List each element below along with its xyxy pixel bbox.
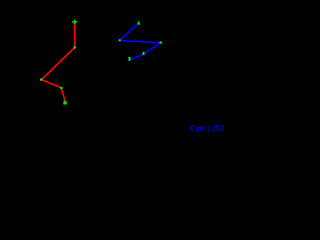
node R1 start marker (green cross) [72, 20, 77, 24]
node R5 end marker (green square) [63, 101, 66, 104]
svg-text:X µm / 20X: X µm / 20X [189, 123, 225, 133]
wire blue segment 2 [120, 41, 161, 43]
wire blue segment 4 [130, 55, 143, 60]
node R2 [73, 46, 76, 49]
wire blue segment 3 [144, 43, 161, 54]
node B5 end marker [128, 57, 130, 61]
node B4 [143, 52, 145, 55]
node R4 [60, 87, 63, 90]
wire red segment 2 [42, 48, 75, 80]
node B3 [159, 41, 162, 44]
wire red segment 4 [61, 88, 65, 101]
wire red segment 3 [42, 80, 62, 88]
wire red segment 1 [74, 22, 76, 48]
wire blue segment 1 [120, 23, 139, 40]
node B2 [119, 39, 121, 41]
node B1 [138, 22, 140, 25]
node R3 [40, 78, 43, 81]
